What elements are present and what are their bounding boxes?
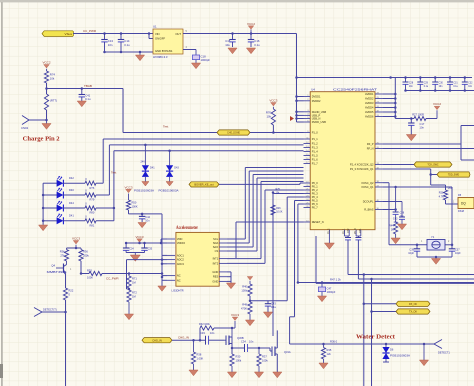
wire LED row D41 bbox=[43, 220, 57, 222]
svg-text:200k: 200k bbox=[83, 253, 89, 257]
svg-text:P2_1: P2_1 bbox=[343, 228, 346, 234]
resistor R33 bbox=[89, 271, 102, 275]
pin RES accel right stub bbox=[219, 276, 227, 278]
pin AVDD6 right stub bbox=[375, 116, 383, 118]
svg-text:C35: C35 bbox=[148, 248, 153, 251]
svg-text:ADC3: ADC3 bbox=[177, 262, 184, 266]
wire corridor 1 to IC bbox=[103, 138, 303, 140]
wire accel bus 4 vertical bbox=[256, 178, 258, 251]
pin NC accel left stub bbox=[167, 279, 175, 281]
junction R40 R49 bbox=[249, 296, 251, 302]
ground input rail bbox=[139, 52, 141, 55]
wire AVDD stub bbox=[383, 102, 395, 104]
svg-text:VCC3: VCC3 bbox=[269, 99, 277, 103]
resistor R44 bbox=[395, 214, 397, 222]
wire Q30B source down bbox=[231, 344, 233, 355]
svg-text:BOXER_KE_out: BOXER_KE_out bbox=[194, 183, 213, 187]
wire decoupling bottom rail bbox=[406, 90, 474, 92]
svg-text:0.1u: 0.1u bbox=[85, 97, 91, 101]
svg-text:P2_3 XOSC32K_Q1: P2_3 XOSC32K_Q1 bbox=[350, 167, 374, 171]
pin P1_0 left stub bbox=[304, 132, 311, 134]
pin ADC2 accel left stub bbox=[167, 259, 175, 261]
svg-text:DVDD1: DVDD1 bbox=[312, 95, 321, 99]
ground under R38 bbox=[193, 364, 195, 370]
capacitor C30 bbox=[434, 76, 437, 79]
svg-text:1M: 1M bbox=[132, 280, 136, 284]
junction TVS D41 on P1_1 wire bbox=[144, 144, 147, 147]
wire to port TX bbox=[372, 311, 397, 313]
svg-text:R49: R49 bbox=[242, 302, 247, 306]
wire D40 to R79 bbox=[63, 194, 85, 196]
svg-text:CC2540F256RHAT: CC2540F256RHAT bbox=[333, 87, 378, 91]
wire accel bus 1 top bbox=[245, 167, 303, 169]
svg-text:P1_7: P1_7 bbox=[312, 162, 319, 166]
pin DVDD2 left stub bbox=[304, 100, 311, 102]
svg-text:R37: R37 bbox=[262, 354, 267, 358]
port Vbus bbox=[42, 31, 73, 37]
svg-text:R80: R80 bbox=[90, 211, 95, 215]
wire AVDD stub bbox=[383, 111, 395, 113]
svg-text:LIS3DHTR: LIS3DHTR bbox=[172, 289, 184, 292]
svg-text:R79: R79 bbox=[90, 198, 95, 202]
ground at IC bottom bbox=[328, 236, 330, 243]
power VCC3 pull-up bbox=[271, 103, 277, 107]
pin SAO accel right stub bbox=[219, 246, 227, 248]
wire USB_N stub bbox=[297, 118, 304, 120]
svg-text:Q4: Q4 bbox=[51, 263, 55, 267]
pin P2_0 bottom stub bbox=[355, 230, 357, 236]
pin P0_1 left stub bbox=[304, 186, 311, 188]
pin SCL accel right stub bbox=[219, 238, 227, 240]
pin XT2 bottom stub bbox=[348, 230, 350, 236]
wire accel bus 2 bottom bbox=[227, 242, 249, 244]
connector CN02 bbox=[22, 116, 29, 121]
wire USB_P stub bbox=[297, 114, 304, 116]
svg-text:C37: C37 bbox=[455, 248, 460, 251]
svg-text:VDDIO: VDDIO bbox=[177, 241, 185, 245]
svg-text:ON/OFF: ON/OFF bbox=[155, 37, 166, 41]
svg-text:GND: GND bbox=[212, 279, 218, 283]
svg-text:VCC2: VCC2 bbox=[42, 61, 50, 65]
tvs diode D6 bbox=[385, 344, 387, 347]
ic U2 accelerometer bbox=[176, 232, 219, 286]
svg-text:1000pF: 1000pF bbox=[201, 58, 211, 62]
svg-text:AVDD5: AVDD5 bbox=[365, 110, 374, 114]
svg-text:DETECT(T): DETECT(T) bbox=[43, 308, 57, 312]
capacitor C41 bbox=[81, 89, 83, 95]
pin XT1 bottom stub bbox=[360, 230, 362, 236]
wire corridor 2 to IC bbox=[109, 144, 303, 146]
svg-text:DVDD2: DVDD2 bbox=[312, 99, 321, 103]
svg-text:VCC3: VCC3 bbox=[231, 313, 239, 317]
junction AVDD branch bbox=[389, 76, 392, 79]
ground under C34 C35 bbox=[134, 253, 136, 256]
port RX_OK bbox=[396, 301, 430, 306]
pin GND accel right stub bbox=[219, 271, 227, 273]
ic U4 CC2540F256RHAT bbox=[310, 92, 375, 230]
svg-text:P0_5: P0_5 bbox=[312, 199, 319, 203]
led D40 bbox=[57, 192, 64, 199]
window left edge strip bbox=[1, 2, 3, 386]
svg-text:SDA: SDA bbox=[213, 241, 219, 245]
port CHG_DONE bbox=[217, 130, 250, 135]
wire CHG_IN bbox=[172, 339, 206, 341]
ground water detect bbox=[423, 344, 425, 360]
junction DVDD/USB vertical bbox=[295, 95, 298, 98]
svg-text:10n: 10n bbox=[210, 331, 215, 335]
svg-text:10n: 10n bbox=[420, 126, 425, 130]
wire VDD rail left bbox=[126, 242, 167, 244]
power VCC3 R50 bbox=[126, 189, 132, 193]
svg-text:D44: D44 bbox=[69, 201, 74, 205]
capacitor C17 bbox=[410, 119, 412, 124]
power VCC3 divider bbox=[73, 241, 79, 245]
pin AVDD3 right stub bbox=[375, 102, 383, 104]
wire long net 2 bbox=[358, 278, 474, 280]
offpage connector DETECT(T) bbox=[34, 308, 42, 313]
svg-text:C33: C33 bbox=[200, 331, 205, 335]
resistor R30 bbox=[230, 354, 234, 366]
svg-text:R40: R40 bbox=[242, 284, 247, 288]
svg-text:Charge Pin 2: Charge Pin 2 bbox=[23, 136, 61, 143]
ground crystal bbox=[435, 256, 438, 259]
resistor R36 bbox=[80, 248, 82, 250]
capacitor C42 bbox=[399, 216, 405, 218]
svg-text:4.7k: 4.7k bbox=[439, 194, 445, 198]
svg-text:R38: R38 bbox=[197, 352, 202, 356]
svg-text:24V: 24V bbox=[141, 160, 146, 163]
svg-text:Test: Test bbox=[111, 171, 116, 175]
svg-text:R36: R36 bbox=[83, 249, 88, 253]
svg-text:C34: C34 bbox=[241, 340, 246, 344]
svg-text:CHG_DONE: CHG_DONE bbox=[227, 131, 240, 135]
svg-text:U1: U1 bbox=[153, 25, 157, 29]
capacitor C47 1000pF bbox=[321, 283, 323, 288]
svg-text:10pF: 10pF bbox=[455, 252, 461, 255]
wire R33 net to NC rail bbox=[129, 273, 162, 275]
svg-text:TBAB: TBAB bbox=[84, 84, 92, 88]
svg-text:P0_7: P0_7 bbox=[312, 206, 319, 210]
svg-text:P0_2: P0_2 bbox=[312, 188, 319, 192]
wire AVDD vertical bbox=[394, 78, 396, 119]
pin RF_P right stub bbox=[375, 143, 383, 145]
svg-text:C34: C34 bbox=[129, 248, 134, 251]
svg-text:100K: 100K bbox=[132, 205, 138, 209]
mosfet Q31A bbox=[271, 347, 273, 357]
resistor R26 inline bbox=[271, 205, 275, 215]
ground under C41 bbox=[77, 101, 86, 107]
svg-text:R76: R76 bbox=[90, 186, 95, 190]
svg-text:10k: 10k bbox=[266, 115, 271, 119]
svg-text:P0_3: P0_3 bbox=[312, 192, 319, 196]
tvs diode D43 bbox=[169, 151, 171, 166]
wire VDD tie bbox=[160, 239, 162, 243]
junction DETECT branch bbox=[64, 311, 67, 314]
svg-text:R72: R72 bbox=[132, 290, 137, 294]
resistor R79 bbox=[85, 193, 96, 197]
ic DQ one-wire device bbox=[458, 198, 474, 209]
wire DGND_USB stub bbox=[297, 111, 304, 113]
wire cap ground rail bbox=[126, 252, 144, 254]
thermistor RT7 bbox=[44, 94, 48, 110]
svg-text:R71: R71 bbox=[132, 276, 137, 280]
svg-text:D42: D42 bbox=[69, 176, 74, 180]
capacitor C39 bbox=[416, 245, 418, 249]
junction at C14 bbox=[120, 32, 123, 35]
resistor R21 bbox=[443, 190, 447, 200]
svg-text:CS: CS bbox=[215, 249, 219, 253]
junction DVDD/USB vertical bbox=[295, 114, 298, 117]
wire accel bus 2 vertical bbox=[248, 171, 250, 243]
svg-text:R22: R22 bbox=[69, 288, 74, 292]
svg-text:ADC1: ADC1 bbox=[177, 253, 184, 257]
svg-text:DCOUPL: DCOUPL bbox=[363, 200, 374, 204]
wire accel bus 6 top bbox=[265, 189, 304, 191]
led D42 bbox=[57, 180, 64, 187]
svg-text:D43: D43 bbox=[174, 167, 179, 170]
svg-text:Accelerometer: Accelerometer bbox=[176, 225, 198, 231]
pin RESET_N left stub bbox=[304, 221, 311, 223]
crystal Y1 bbox=[427, 240, 445, 251]
svg-text:PGB1010603A: PGB1010603A bbox=[134, 190, 155, 193]
wire accel NC rail bbox=[162, 275, 167, 277]
junction TVS D6 bbox=[385, 343, 388, 346]
wire U1 OUT bbox=[183, 33, 297, 35]
capacitor C14 bbox=[120, 34, 122, 40]
capacitor C26 at IC bottom bbox=[345, 235, 349, 237]
wire P0_5 drop to water detect bbox=[295, 200, 304, 202]
capacitor C44 bbox=[141, 214, 143, 217]
pin P2_4 XOSC32K_Q2 right stub bbox=[375, 164, 383, 166]
svg-text:RF_P: RF_P bbox=[367, 142, 374, 146]
port TCK_SWC bbox=[414, 162, 452, 167]
pin P0_0 left stub bbox=[304, 182, 311, 184]
wire Q31A source down bbox=[276, 354, 278, 372]
svg-text:VDD: VDD bbox=[177, 237, 183, 241]
wire R47 node bbox=[297, 281, 300, 284]
svg-text:AVDD3: AVDD3 bbox=[365, 101, 374, 105]
junction C35a bbox=[143, 242, 146, 245]
svg-text:R_BIAS: R_BIAS bbox=[364, 208, 373, 212]
offpage connector DETECT1 bbox=[426, 343, 434, 345]
junction detect ground bbox=[423, 343, 426, 346]
wire from IC bottom caps to long nets bbox=[347, 240, 349, 275]
pin DCOUPL right stub bbox=[375, 201, 383, 203]
svg-text:RF_N: RF_N bbox=[367, 147, 374, 151]
svg-text:P2_2: P2_2 bbox=[327, 228, 330, 234]
wire U1 BYPASS bbox=[183, 49, 196, 51]
ground under R30 bbox=[231, 366, 233, 372]
pin P0_7 left stub bbox=[304, 207, 311, 209]
wire battery monitor to ADC2 bbox=[127, 259, 163, 261]
wire gate to R32 bbox=[199, 328, 201, 340]
svg-text:C43: C43 bbox=[271, 302, 276, 306]
wire LED row2 to riser bbox=[96, 194, 109, 196]
pin P2_2 bottom stub bbox=[328, 230, 330, 236]
pin NC accel left stub bbox=[167, 275, 175, 277]
ground accel left bbox=[158, 286, 166, 291]
svg-text:P1_3: P1_3 bbox=[312, 146, 319, 150]
pin RF_N right stub bbox=[375, 148, 383, 150]
pin ADC3 accel left stub bbox=[167, 263, 175, 265]
wire divider top rail bbox=[67, 247, 82, 249]
pin USB_P left stub bbox=[304, 114, 311, 116]
wire thermistor to CN02 bbox=[46, 110, 48, 120]
wire R33 to R71 bbox=[102, 273, 129, 275]
power VCC2 at AVDD bbox=[434, 106, 440, 110]
wire Vbus to U1 VIN bbox=[73, 33, 153, 35]
wire long net 3 bbox=[316, 282, 474, 284]
resistor R34 bbox=[66, 248, 68, 250]
led D44 bbox=[57, 205, 64, 212]
junction R35 bbox=[322, 343, 325, 346]
junction C41 bbox=[81, 87, 84, 90]
port BOXER_KE_out bbox=[189, 182, 219, 187]
wire DVDD_USB stub bbox=[297, 121, 304, 123]
wire accel bus 6 vertical bbox=[264, 190, 266, 263]
pin AVDD1 right stub bbox=[375, 93, 383, 95]
ground under D43 bbox=[169, 177, 171, 182]
svg-text:10n: 10n bbox=[249, 340, 254, 344]
wire XOSC_Q1 to crystal bbox=[383, 186, 452, 188]
svg-text:1M: 1M bbox=[132, 294, 136, 298]
wire corridor 3 to IC bbox=[114, 150, 304, 152]
svg-text:VCC2: VCC2 bbox=[433, 102, 441, 106]
wire LED row D40 bbox=[43, 194, 57, 196]
svg-text:C32: C32 bbox=[468, 83, 473, 85]
mosfet Q30B bbox=[224, 339, 226, 341]
wire R21 to DQ bbox=[445, 200, 447, 204]
svg-text:OUT: OUT bbox=[175, 32, 181, 36]
ground under charge divider bbox=[46, 120, 48, 124]
svg-text:10n: 10n bbox=[393, 221, 398, 224]
wire DVDD2 stub bbox=[297, 100, 304, 102]
pin CS accel right stub bbox=[219, 250, 227, 252]
junction DVDD/USB vertical bbox=[295, 117, 298, 120]
junction CN02 node bbox=[45, 119, 48, 122]
wire to DETECT(T) connector bbox=[42, 311, 66, 313]
svg-text:D41: D41 bbox=[150, 167, 155, 170]
svg-text:MMBT3904: MMBT3904 bbox=[47, 271, 68, 274]
svg-text:10n: 10n bbox=[108, 43, 113, 47]
svg-text:XOSC_Q1: XOSC_Q1 bbox=[361, 185, 374, 189]
wire P2_3 to DQ branch bbox=[383, 168, 431, 170]
svg-text:SAO: SAO bbox=[213, 245, 218, 249]
wire LED row4 to riser bbox=[96, 220, 114, 222]
junction C47 bbox=[321, 281, 324, 284]
wire DVDD1 stub bbox=[297, 96, 304, 98]
wire R32 to VCC3 rail bbox=[214, 327, 235, 329]
wire accel ADC stubs to rail bbox=[162, 254, 167, 256]
svg-text:CHG_IN: CHG_IN bbox=[178, 335, 189, 339]
svg-text:TCK_SWC: TCK_SWC bbox=[427, 163, 438, 167]
capacitor C31 bbox=[449, 76, 452, 79]
svg-text:R21: R21 bbox=[439, 190, 444, 194]
left scrollbar thumb bbox=[0, 364, 3, 378]
wire C33 to Q30B gate bbox=[209, 339, 225, 341]
svg-text:RES: RES bbox=[213, 275, 219, 279]
pin P2_1 bottom stub bbox=[344, 230, 346, 236]
pin P1_5 left stub bbox=[304, 155, 311, 157]
wire port branch vertical 2 bbox=[371, 279, 373, 386]
junction C34a bbox=[125, 242, 128, 245]
resistor R80 bbox=[85, 206, 96, 210]
wire port branch vertical 1 bbox=[363, 275, 365, 386]
junction crystal right bbox=[451, 244, 454, 247]
wire D44 to R80 bbox=[63, 207, 85, 209]
svg-text:C28: C28 bbox=[409, 83, 414, 85]
wire accel bus 5 vertical bbox=[260, 182, 262, 259]
wire accel bus 6 bottom bbox=[227, 262, 265, 264]
svg-text:10.0K: 10.0K bbox=[276, 210, 283, 213]
wire accel bus 5 bottom bbox=[227, 258, 261, 260]
capacitor C28 bbox=[404, 76, 407, 79]
wire accel GND rail bbox=[227, 271, 231, 273]
wire accel bus 1 vertical bbox=[244, 168, 246, 240]
wire LED row D42 bbox=[43, 182, 57, 184]
resistor R22 bbox=[63, 288, 67, 300]
pin SDA accel right stub bbox=[219, 242, 227, 244]
ground under C47 bbox=[317, 296, 326, 302]
wire riser 1 bbox=[102, 139, 104, 183]
ground under C44 bbox=[138, 223, 146, 228]
svg-text:XT2: XT2 bbox=[347, 228, 350, 233]
svg-text:100k: 100k bbox=[236, 358, 242, 362]
resistor R27 bbox=[414, 116, 426, 120]
ground under C42 bbox=[401, 219, 403, 224]
pin DVDD1 left stub bbox=[304, 96, 311, 98]
resistor R72 bbox=[128, 288, 130, 290]
pin P1_1 left stub bbox=[304, 138, 311, 140]
wire R36 bottom to R33 bbox=[80, 261, 82, 274]
pin AVDD5 right stub bbox=[375, 111, 383, 113]
svg-text:CC_PWR: CC_PWR bbox=[83, 29, 97, 33]
junction R38 bbox=[192, 339, 195, 342]
resistor R35 bbox=[323, 344, 325, 348]
capacitor C38 bbox=[394, 186, 397, 189]
capacitor C35a bbox=[144, 243, 146, 248]
port TX_OK bbox=[396, 309, 430, 314]
svg-text:VCC3: VCC3 bbox=[135, 235, 143, 239]
led D41 bbox=[57, 217, 64, 224]
svg-text:C30: C30 bbox=[439, 83, 444, 85]
svg-text:AVDD2: AVDD2 bbox=[365, 97, 374, 101]
svg-text:TDD_SWD: TDD_SWD bbox=[448, 173, 459, 177]
wire AVDD to R27 bbox=[395, 118, 414, 120]
pin XOSC_Q2 right stub bbox=[375, 182, 383, 184]
wire accel bus 3 vertical bbox=[252, 175, 254, 248]
wire R74 to TBAB bbox=[46, 83, 48, 94]
wire DCOUPL to C42 bbox=[383, 201, 402, 203]
junction at C13 bbox=[103, 32, 106, 35]
svg-text:C44: C44 bbox=[145, 216, 150, 219]
svg-text:P1_2: P1_2 bbox=[312, 142, 319, 146]
svg-text:R44: R44 bbox=[389, 223, 394, 227]
wire XOSC_Q2 to crystal bbox=[383, 182, 389, 184]
svg-text:CC_PWR: CC_PWR bbox=[106, 276, 119, 280]
svg-text:AVDD4: AVDD4 bbox=[365, 106, 374, 110]
svg-text:AVDD1: AVDD1 bbox=[365, 92, 374, 96]
svg-text:Q31A: Q31A bbox=[284, 350, 291, 354]
wire AVDD stub bbox=[383, 98, 395, 100]
resistor R74 bbox=[44, 71, 48, 83]
capacitor C29 bbox=[419, 76, 422, 79]
wire P0_3 drop bbox=[273, 193, 304, 195]
junction DVDD/USB vertical bbox=[295, 100, 298, 103]
wire riser 3 bbox=[113, 151, 115, 221]
ground under R35 bbox=[323, 359, 325, 363]
wire input ground rail bbox=[105, 51, 154, 53]
